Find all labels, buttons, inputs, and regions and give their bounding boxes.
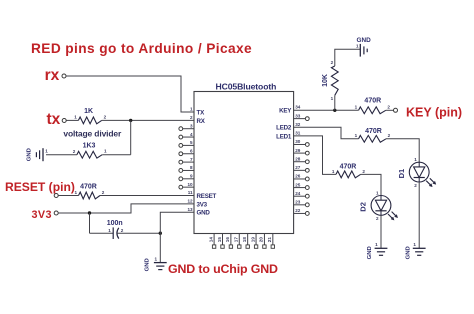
svg-text:GND: GND — [197, 210, 211, 217]
svg-text:13: 13 — [187, 207, 193, 212]
svg-text:19: 19 — [250, 237, 255, 243]
svg-text:1: 1 — [108, 228, 111, 233]
svg-text:34: 34 — [295, 105, 301, 110]
svg-text:2: 2 — [376, 216, 379, 221]
svg-text:rx: rx — [45, 67, 60, 84]
svg-text:2: 2 — [331, 60, 334, 65]
svg-text:KEY (pin): KEY (pin) — [406, 106, 462, 120]
svg-text:6: 6 — [190, 148, 193, 153]
svg-text:LED1: LED1 — [276, 133, 292, 140]
svg-text:2: 2 — [102, 190, 105, 195]
svg-text:30: 30 — [295, 139, 301, 144]
svg-text:8: 8 — [190, 165, 193, 170]
svg-text:26: 26 — [295, 174, 301, 179]
svg-text:1: 1 — [74, 115, 77, 120]
svg-text:17: 17 — [234, 237, 239, 243]
svg-text:10: 10 — [187, 182, 193, 187]
svg-text:1: 1 — [332, 169, 335, 174]
svg-text:27: 27 — [295, 165, 301, 170]
svg-text:14: 14 — [208, 237, 213, 243]
svg-text:470R: 470R — [364, 98, 381, 105]
svg-text:2: 2 — [190, 115, 193, 120]
svg-text:1: 1 — [355, 133, 358, 138]
svg-text:21: 21 — [267, 237, 272, 243]
svg-text:1: 1 — [413, 242, 416, 247]
svg-text:2: 2 — [387, 105, 390, 110]
svg-text:1: 1 — [376, 190, 379, 195]
svg-text:HC05Bluetooth: HC05Bluetooth — [216, 81, 277, 91]
svg-text:TX: TX — [197, 110, 206, 117]
svg-text:D1: D1 — [397, 169, 406, 179]
svg-text:11: 11 — [188, 190, 193, 195]
svg-text:GND: GND — [405, 246, 411, 259]
svg-text:33: 33 — [295, 113, 301, 118]
svg-text:4: 4 — [190, 132, 193, 137]
svg-text:100n: 100n — [107, 220, 123, 227]
svg-text:LED2: LED2 — [276, 125, 292, 132]
svg-text:1: 1 — [45, 148, 48, 153]
svg-text:22: 22 — [295, 208, 301, 213]
svg-text:32: 32 — [295, 122, 301, 127]
svg-text:KEY: KEY — [279, 108, 292, 115]
svg-text:tx: tx — [47, 111, 61, 128]
svg-text:voltage divider: voltage divider — [63, 128, 122, 138]
svg-text:1: 1 — [154, 256, 157, 261]
svg-text:23: 23 — [295, 200, 301, 205]
svg-text:1: 1 — [356, 43, 359, 48]
svg-text:10K: 10K — [322, 74, 329, 87]
svg-text:GND: GND — [27, 148, 33, 161]
svg-text:9: 9 — [190, 174, 193, 179]
svg-text:1: 1 — [331, 96, 334, 101]
svg-text:RESET (pin): RESET (pin) — [5, 180, 75, 194]
svg-text:7: 7 — [190, 157, 193, 162]
svg-text:1: 1 — [414, 157, 417, 162]
svg-text:2: 2 — [388, 133, 391, 138]
svg-text:GND to uChip GND: GND to uChip GND — [168, 262, 278, 276]
svg-text:28: 28 — [295, 156, 301, 161]
svg-text:2: 2 — [362, 169, 365, 174]
svg-text:RX: RX — [197, 118, 206, 125]
svg-text:20: 20 — [259, 237, 264, 243]
svg-text:470R: 470R — [365, 128, 382, 135]
svg-text:16: 16 — [225, 237, 230, 243]
svg-text:3V3: 3V3 — [197, 201, 208, 208]
svg-text:2: 2 — [414, 183, 417, 188]
svg-text:3V3: 3V3 — [32, 209, 52, 221]
svg-text:1: 1 — [104, 149, 107, 154]
svg-text:RED pins go to Arduino / Picax: RED pins go to Arduino / Picaxe — [31, 41, 252, 56]
svg-text:1: 1 — [375, 242, 378, 247]
svg-text:GND: GND — [356, 37, 371, 44]
svg-text:1: 1 — [74, 190, 77, 195]
svg-text:2: 2 — [104, 115, 107, 120]
svg-text:29: 29 — [295, 148, 301, 153]
svg-text:GND: GND — [145, 258, 151, 271]
svg-text:470R: 470R — [340, 163, 357, 170]
svg-text:2: 2 — [121, 228, 124, 233]
svg-text:25: 25 — [295, 182, 301, 187]
svg-text:18: 18 — [242, 237, 247, 243]
svg-text:5: 5 — [190, 140, 193, 145]
svg-text:1: 1 — [355, 105, 358, 110]
svg-text:31: 31 — [295, 131, 301, 136]
svg-text:1K: 1K — [84, 108, 93, 115]
svg-text:470R: 470R — [80, 183, 97, 190]
svg-text:GND: GND — [367, 246, 373, 259]
svg-text:12: 12 — [187, 199, 193, 204]
svg-text:RESET: RESET — [197, 193, 217, 200]
svg-text:D2: D2 — [359, 202, 368, 212]
svg-text:1: 1 — [190, 107, 193, 112]
svg-text:24: 24 — [295, 191, 301, 196]
svg-text:1K3: 1K3 — [83, 142, 96, 149]
svg-text:2: 2 — [73, 149, 76, 154]
svg-text:15: 15 — [217, 237, 222, 243]
svg-text:3: 3 — [190, 123, 193, 128]
